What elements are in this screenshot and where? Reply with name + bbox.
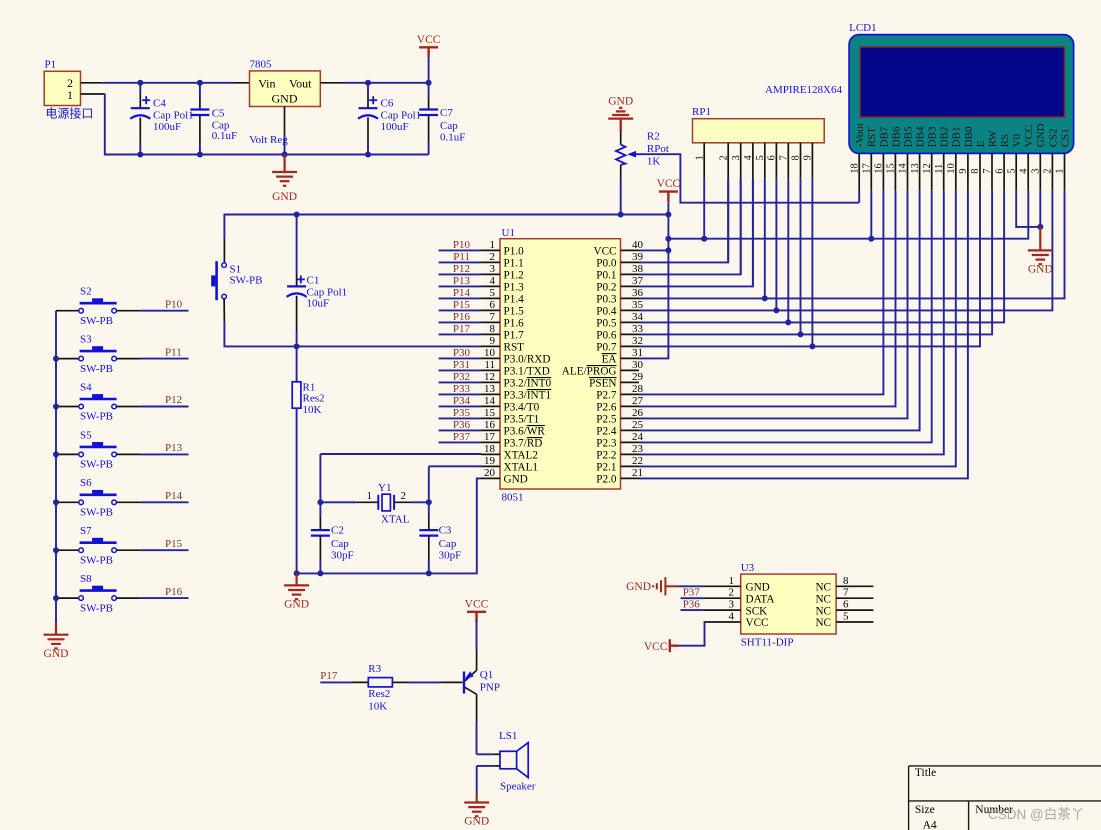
svg-text:P13: P13 <box>165 442 183 454</box>
wire S5 to net P13 <box>141 453 189 455</box>
C2 plates <box>311 530 330 536</box>
push button <box>79 591 117 601</box>
wire Q1 collector to LS1 <box>476 723 478 755</box>
svg-text:1: 1 <box>367 490 373 502</box>
wire P2.4 (pin 25) to LCD DB4 <box>639 191 920 431</box>
svg-text:XTAL2: XTAL2 <box>504 450 539 462</box>
junction C5/bottom <box>197 152 203 158</box>
svg-text:2: 2 <box>401 490 407 502</box>
svg-text:17: 17 <box>484 431 496 443</box>
svg-text:1: 1 <box>729 575 735 587</box>
wire R3 to Q1 base <box>408 681 441 683</box>
connector P1 (power input) <box>44 71 80 105</box>
svg-text:9: 9 <box>490 335 496 347</box>
U1 pin 3 (P1.2) <box>481 273 500 275</box>
svg-text:5: 5 <box>490 287 496 299</box>
svg-text:CSDN @白茶丫: CSDN @白茶丫 <box>988 807 1084 822</box>
push button <box>79 543 117 553</box>
U1 pin 15 (P3.5) <box>481 417 500 419</box>
VCC stem Q1 <box>476 613 478 620</box>
junction C1/rail <box>294 212 300 218</box>
svg-text:16: 16 <box>874 163 885 174</box>
svg-text:EA: EA <box>602 354 617 366</box>
svg-text:S3: S3 <box>80 334 92 346</box>
svg-text:VCC: VCC <box>657 178 681 190</box>
svg-text:29: 29 <box>632 371 644 383</box>
svg-text:RW: RW <box>987 130 999 148</box>
svg-text:SW-PB: SW-PB <box>80 363 113 375</box>
svg-text:SW-PB: SW-PB <box>80 507 113 519</box>
wire P0.3 (pin 36) to LCD CS1 <box>639 191 1065 299</box>
svg-text:37: 37 <box>632 275 644 287</box>
junction C7/VCC <box>426 80 432 86</box>
U1 pin 33 (P0.6) <box>621 333 640 335</box>
Q1 base pin <box>441 681 463 683</box>
U1 pin 24 (P2.3) <box>621 441 640 443</box>
LCD1 pin 6 (RS) <box>1003 153 1005 190</box>
U3 pin 5 (NC) <box>836 621 873 623</box>
ground (crystal section) <box>284 573 309 599</box>
wire VCC rail to LCD VCC pin 4 <box>668 191 1028 239</box>
speaker LS1 <box>500 751 517 769</box>
svg-text:27: 27 <box>632 395 644 407</box>
svg-text:P14: P14 <box>165 490 183 502</box>
LCD1 pin 17 (RST) <box>870 153 872 190</box>
junction bus/S6 <box>53 499 59 505</box>
svg-text:P36: P36 <box>453 419 471 431</box>
svg-text:P2.2: P2.2 <box>596 450 616 462</box>
svg-text:P16: P16 <box>165 586 183 598</box>
svg-text:P2.1: P2.1 <box>596 462 616 474</box>
svg-text:DB7: DB7 <box>878 126 890 147</box>
svg-text:4: 4 <box>729 611 735 623</box>
svg-text:SW-PB: SW-PB <box>80 554 113 566</box>
wire LCD GND column <box>1039 191 1041 227</box>
svg-text:DB2: DB2 <box>939 127 951 148</box>
svg-text:R3: R3 <box>368 663 381 675</box>
svg-text:NC: NC <box>815 605 831 617</box>
LCD1 pin 12 (DB3) <box>931 153 933 190</box>
svg-text:P10: P10 <box>165 298 183 310</box>
U3 pin 3 (SCK) <box>704 609 741 611</box>
svg-text:P3.7/RD: P3.7/RD <box>504 438 543 450</box>
svg-text:Cap: Cap <box>440 120 458 132</box>
svg-text:P2.0: P2.0 <box>596 474 617 486</box>
wire RP1 pin 6 column <box>775 179 777 311</box>
wire Vout to VCC node <box>344 82 429 84</box>
junction C4/bottom <box>137 152 143 158</box>
svg-text:C5: C5 <box>212 108 225 120</box>
svg-text:9: 9 <box>958 169 969 174</box>
wire LS1 to ground <box>476 766 478 794</box>
switch bus (left) <box>55 311 57 623</box>
svg-text:C4: C4 <box>153 97 166 109</box>
svg-text:9: 9 <box>803 155 814 160</box>
svg-text:7: 7 <box>843 587 849 599</box>
S8 right pin <box>116 597 140 599</box>
overline for U1 pin 12 name <box>527 377 551 379</box>
junction pin40/VCC column <box>665 247 671 253</box>
svg-text:AMPIRE128X64: AMPIRE128X64 <box>765 84 843 96</box>
LCD1 pin 15 (DB6) <box>894 153 896 190</box>
svg-text:P35: P35 <box>453 407 471 419</box>
wire U3 GND pin <box>679 585 704 587</box>
svg-text:11: 11 <box>484 359 495 371</box>
svg-text:8: 8 <box>970 169 981 174</box>
svg-text:DB3: DB3 <box>927 126 939 147</box>
VCC power symbol above U1 <box>659 192 678 202</box>
junction VCC column/VCC rail <box>665 236 671 242</box>
U1 pin 8 (P1.7) <box>481 333 500 335</box>
svg-text:P0.7: P0.7 <box>596 342 617 354</box>
svg-text:1: 1 <box>1055 169 1066 174</box>
wire S1 to U1 RST (pin 9) <box>224 322 481 346</box>
wire P0.6 (pin 33) to LCD RW <box>639 191 992 335</box>
svg-text:16: 16 <box>484 419 496 431</box>
svg-text:1K: 1K <box>647 156 661 168</box>
S5 right pin <box>116 453 140 455</box>
svg-text:6: 6 <box>767 155 778 160</box>
ground (regulator) <box>272 155 297 186</box>
svg-text:GND: GND <box>44 648 69 660</box>
S3 right pin <box>116 358 140 360</box>
overline for U1 pin 13 name <box>527 389 551 391</box>
junction bus/S3 <box>53 356 59 362</box>
wire P0.4 (pin 35) to LCD CS2 <box>639 191 1052 311</box>
svg-text:P16: P16 <box>453 311 471 323</box>
wire VCC column down to EA pin 31 <box>639 203 668 359</box>
svg-text:P1.2: P1.2 <box>504 270 524 282</box>
U1 pin 20 (GND) <box>481 477 500 479</box>
junction RP1 pin8/P0.6 <box>798 331 804 337</box>
svg-text:Res2: Res2 <box>368 688 390 700</box>
svg-text:GND: GND <box>626 581 651 593</box>
svg-text:8051: 8051 <box>502 492 524 504</box>
P1 pin 2 stub <box>81 82 103 84</box>
U1 pin 32 (P0.7) <box>621 345 640 347</box>
svg-text:P0.6: P0.6 <box>596 330 617 342</box>
svg-text:C6: C6 <box>381 97 394 109</box>
svg-text:Cap Pol1: Cap Pol1 <box>381 110 422 122</box>
svg-text:ALE/PROG: ALE/PROG <box>562 366 617 378</box>
svg-text:GND: GND <box>464 816 489 828</box>
svg-text:V0: V0 <box>1011 133 1023 147</box>
svg-text:S5: S5 <box>80 429 92 441</box>
wire S7 to net P15 <box>141 549 189 551</box>
svg-text:RST: RST <box>504 342 525 354</box>
junction LCD RST/VCC rail <box>868 236 874 242</box>
junction C2/Y1 <box>317 499 323 505</box>
wire P2.0 (pin 21) to LCD DB0 <box>639 191 968 479</box>
svg-text:Y1: Y1 <box>378 482 391 494</box>
U1 pin 28 (P2.7) <box>621 393 640 395</box>
svg-text:35: 35 <box>632 299 644 311</box>
svg-text:Title: Title <box>915 767 936 779</box>
svg-text:5: 5 <box>755 155 766 160</box>
svg-text:P30: P30 <box>453 347 471 359</box>
svg-text:S4: S4 <box>80 381 92 393</box>
Q1 emitter pin <box>476 650 478 670</box>
svg-text:GND: GND <box>272 92 298 106</box>
svg-text:GND: GND <box>504 474 528 486</box>
U1 pin 36 (P0.3) <box>621 297 640 299</box>
R2 bottom pin <box>620 165 622 180</box>
U1 pin 35 (P0.4) <box>621 309 640 311</box>
svg-text:GND: GND <box>608 95 633 107</box>
svg-text:VCC: VCC <box>644 641 668 653</box>
svg-text:Volt Reg: Volt Reg <box>249 134 288 146</box>
voltage regulator 7805 <box>250 71 321 107</box>
svg-text:P37: P37 <box>453 431 471 443</box>
ground (U3, sideways) <box>653 577 679 595</box>
RP1 pin 9 <box>811 143 813 179</box>
wire crystal GND rail to U1 pin 20 <box>297 478 481 573</box>
svg-text:P33: P33 <box>453 383 471 395</box>
svg-text:P11: P11 <box>453 251 470 263</box>
U1 pin 17 (P3.7) <box>481 441 500 443</box>
svg-text:XTAL1: XTAL1 <box>504 462 539 474</box>
U1 pin 34 (P0.5) <box>621 321 640 323</box>
svg-text:13: 13 <box>910 163 921 174</box>
svg-text:P12: P12 <box>165 394 182 406</box>
svg-text:15: 15 <box>886 163 897 174</box>
U1 pin 31 (EA) <box>621 357 640 359</box>
LS1 pin 1 <box>493 753 500 755</box>
wire P0.0 (pin 39) to RP1 pin 2 <box>639 179 728 263</box>
svg-text:6: 6 <box>994 169 1005 174</box>
junction RP1 pin7/P0.5 <box>785 319 791 325</box>
svg-text:15: 15 <box>484 407 496 419</box>
U1 pin 6 (P1.5) <box>481 309 500 311</box>
S5 left pin <box>56 453 79 455</box>
svg-text:2: 2 <box>490 251 496 263</box>
svg-text:DB1: DB1 <box>951 127 963 148</box>
svg-text:30pF: 30pF <box>331 549 354 561</box>
svg-text:DB6: DB6 <box>890 126 902 147</box>
LCD1 pin 8 (E) <box>979 153 981 190</box>
svg-text:C2: C2 <box>331 525 344 537</box>
wire RP1 pin 2 column <box>727 179 729 263</box>
svg-text:P17: P17 <box>453 323 471 335</box>
svg-text:12: 12 <box>484 371 495 383</box>
RP1 pin 2 <box>727 143 729 179</box>
junction 7805 GND/rail <box>282 152 288 158</box>
svg-text:XTAL: XTAL <box>381 514 410 526</box>
svg-text:S8: S8 <box>80 573 92 585</box>
svg-text:8: 8 <box>791 155 802 160</box>
svg-text:100uF: 100uF <box>153 121 181 133</box>
wire RP1 pin 9 column <box>811 179 813 347</box>
wire RP1 pin 1 to VCC rail <box>703 179 705 239</box>
wire RP1 pin 8 column <box>800 179 802 335</box>
wire P1.1 down and along bottom GND rail <box>105 94 429 155</box>
Y1 pin 1 stub <box>357 501 379 503</box>
capacitor C4 (Cap Pol1 100uF) <box>139 83 141 94</box>
LCD1 pin 14 (DB5) <box>907 153 909 190</box>
svg-text:C1: C1 <box>307 274 320 286</box>
wire P2.7 (pin 28) to LCD DB7 <box>639 191 883 395</box>
push button <box>79 447 117 457</box>
svg-text:40: 40 <box>632 239 644 251</box>
U3 pin 6 (NC) <box>836 609 873 611</box>
LCD1 pin 13 (DB4) <box>919 153 921 190</box>
svg-text:1: 1 <box>694 155 705 160</box>
wire P2.5 (pin 26) to LCD DB5 <box>639 191 908 419</box>
svg-text:E: E <box>975 140 987 147</box>
LCD1 pin 18 (-Vout) <box>858 153 860 190</box>
svg-text:P2.3: P2.3 <box>596 438 617 450</box>
svg-text:Size: Size <box>915 804 935 816</box>
svg-text:P2.6: P2.6 <box>596 402 617 414</box>
svg-text:P31: P31 <box>453 359 470 371</box>
wire R2 wiper to LCD -Vout <box>646 154 859 203</box>
junction RP1 pin5/P0.3 <box>762 295 768 301</box>
svg-text:11: 11 <box>934 164 945 174</box>
S1 top pin <box>223 238 225 263</box>
svg-text:GND: GND <box>746 582 770 594</box>
junction C6/bottom <box>365 152 371 158</box>
U1 pin 25 (P2.4) <box>621 429 640 431</box>
wire P0.5 (pin 34) to LCD RS <box>639 191 1004 323</box>
svg-text:100uF: 100uF <box>381 121 409 133</box>
svg-text:23: 23 <box>632 443 644 455</box>
wire Y1 pin 2 to C3 <box>411 501 429 503</box>
svg-text:P0.0: P0.0 <box>596 258 617 270</box>
junction C2/GND rail <box>317 570 323 576</box>
svg-text:2: 2 <box>718 155 729 160</box>
wire RP1 pin 7 column <box>787 179 789 323</box>
wire U1 XTAL2 (pin 18) <box>320 453 481 455</box>
svg-text:P15: P15 <box>165 538 183 550</box>
svg-text:2: 2 <box>1043 169 1054 174</box>
VCC stem <box>428 49 430 57</box>
LS1 pin 2 <box>493 765 500 767</box>
svg-text:4: 4 <box>743 155 754 161</box>
svg-text:P2.4: P2.4 <box>596 426 617 438</box>
U1 pin 11 (P3.1) <box>481 369 500 371</box>
U3 pin 7 (NC) <box>836 597 873 599</box>
wire XTAL1 riser <box>428 466 430 502</box>
svg-text:P34: P34 <box>453 395 471 407</box>
S6 left pin <box>56 501 79 503</box>
svg-text:P13: P13 <box>453 275 471 287</box>
svg-text:P0.5: P0.5 <box>596 318 617 330</box>
U1 pin 10 (P3.0) <box>481 357 500 359</box>
svg-text:P15: P15 <box>453 299 471 311</box>
svg-text:C3: C3 <box>439 525 452 537</box>
junction C1-R1/RST wire <box>294 343 300 349</box>
wire to LS1 top terminal <box>477 753 494 755</box>
C7 plates <box>419 110 438 116</box>
svg-text:VCC: VCC <box>746 617 769 629</box>
LCD1 pin 10 (DB1) <box>955 153 957 190</box>
svg-text:18: 18 <box>849 163 860 174</box>
svg-text:P2.7: P2.7 <box>596 390 617 402</box>
svg-text:SW-PB: SW-PB <box>80 315 113 327</box>
U1 pin 30 (ALE) <box>621 369 640 371</box>
svg-text:Speaker: Speaker <box>500 780 536 792</box>
R2 top pin <box>620 131 622 145</box>
svg-text:3: 3 <box>490 263 496 275</box>
U1 pin 4 (P1.3) <box>481 285 500 287</box>
S8 left pin <box>56 597 79 599</box>
svg-text:1: 1 <box>67 88 73 102</box>
U1 pin 9 (RST) <box>481 345 500 347</box>
wire R2 bottom to rail <box>620 180 622 215</box>
U1 pin 19 (XTAL1) <box>481 465 500 467</box>
U3 pin 8 (NC) <box>836 585 873 587</box>
svg-text:SW-PB: SW-PB <box>230 275 263 287</box>
svg-text:P12: P12 <box>453 263 470 275</box>
U1 pin 21 (P2.0) <box>621 477 640 479</box>
7805 Vin pin stub <box>233 82 250 84</box>
svg-text:21: 21 <box>632 467 643 479</box>
svg-text:28: 28 <box>632 383 644 395</box>
RP1 pin 3 <box>740 143 742 179</box>
wire U1 VCC pin 40 to VCC column <box>639 249 668 251</box>
svg-text:VCC: VCC <box>593 246 616 258</box>
svg-text:SW-PB: SW-PB <box>80 602 113 614</box>
svg-text:P1.1: P1.1 <box>504 258 524 270</box>
junction C3/Y1 <box>426 499 432 505</box>
svg-text:10uF: 10uF <box>307 297 330 309</box>
U1 pin 29 (PSEN) <box>621 381 640 383</box>
wire S3 to net P11 <box>141 358 189 360</box>
svg-text:4: 4 <box>1018 168 1029 174</box>
capacitor C3 (Cap 30pF) <box>428 502 430 517</box>
svg-text:GND: GND <box>272 191 297 203</box>
svg-text:13: 13 <box>484 383 496 395</box>
RP1 pin 1 <box>703 143 705 179</box>
svg-text:CS1: CS1 <box>1059 128 1071 147</box>
RP1 pin 6 <box>775 143 777 179</box>
svg-text:P1.6: P1.6 <box>504 318 525 330</box>
svg-text:P36: P36 <box>683 599 701 611</box>
C4 plates <box>130 108 150 119</box>
svg-text:6: 6 <box>490 299 496 311</box>
U1 pin 2 (P1.1) <box>481 261 500 263</box>
svg-text:P3.5/T1: P3.5/T1 <box>504 414 540 426</box>
U1 pin 12 (P3.2) <box>481 381 500 383</box>
svg-text:10: 10 <box>946 163 957 174</box>
C6 plates <box>358 108 378 119</box>
svg-text:2: 2 <box>729 587 735 599</box>
LCD1 pin 7 (RW) <box>991 153 993 190</box>
U1 pin 23 (P2.2) <box>621 453 640 455</box>
capacitor C2 (Cap 30pF) <box>319 502 321 517</box>
7805 Vout pin stub <box>320 82 343 84</box>
svg-text:P32: P32 <box>453 371 470 383</box>
svg-text:P0.4: P0.4 <box>596 306 617 318</box>
RP1 pin 8 <box>800 143 802 179</box>
svg-text:Vout: Vout <box>289 76 312 90</box>
wire U3 SCK (net P36) <box>681 609 704 611</box>
svg-text:电源接口: 电源接口 <box>45 106 93 121</box>
svg-text:4: 4 <box>490 275 496 287</box>
svg-text:31: 31 <box>632 347 643 359</box>
wire P2.6 (pin 27) to LCD DB6 <box>639 191 896 407</box>
C6 plus <box>369 96 377 104</box>
overline for U1 pin 17 name <box>527 437 543 439</box>
C1 plus <box>297 275 305 283</box>
svg-text:NC: NC <box>815 593 831 605</box>
svg-text:-Vout: -Vout <box>854 123 866 147</box>
wire P2.3 (pin 24) to LCD DB3 <box>639 191 932 443</box>
junction bus/S4 <box>53 404 59 410</box>
svg-text:S7: S7 <box>80 525 92 537</box>
S1 bottom pin <box>223 299 225 322</box>
wire to Y1 pin 1 <box>320 501 356 503</box>
